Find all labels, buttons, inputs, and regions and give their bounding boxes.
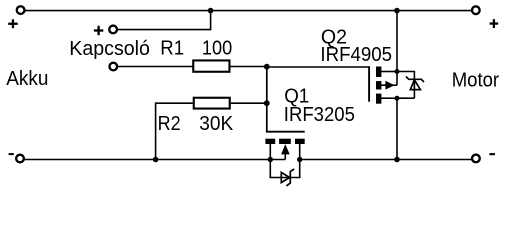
Q2 body diode bottom leg: [397, 97, 414, 99]
terminal battery minus: [16, 155, 24, 163]
transistor Q1: [265, 85, 355, 185]
svg-text:30K: 30K: [199, 113, 234, 135]
Q2 channel bar source: [376, 67, 381, 78]
label minus motor: [489, 153, 495, 155]
svg-text:R1: R1: [160, 38, 184, 60]
svg-text:Akku: Akku: [6, 68, 48, 90]
Q1 body diode left leg: [270, 160, 290, 178]
label plus switch: [94, 26, 103, 35]
Q1 source stub: [269, 144, 271, 160]
Q1 body diode right leg: [290, 160, 299, 178]
Q1 channel bar source: [265, 139, 275, 144]
junction node switch branch: [208, 8, 214, 14]
switch terminal bottom: [109, 63, 117, 71]
wire switch to R1: [118, 66, 193, 68]
junction node R2 ground: [153, 157, 159, 163]
Q1 channel bar drain: [295, 139, 305, 144]
wire gate node to Q2 gate: [267, 66, 370, 68]
svg-text:Motor: Motor: [452, 70, 500, 92]
Q2 body arrow: [385, 81, 394, 90]
Q1 body wire: [284, 154, 286, 160]
Q2 channel bar body: [376, 81, 381, 89]
resistor R1: [193, 60, 229, 71]
junction node Q2 drain: [395, 96, 400, 101]
label minus battery: [9, 153, 14, 155]
label plus battery: [8, 19, 18, 28]
label plus motor: [490, 19, 499, 28]
svg-text:Kapcsoló: Kapcsoló: [69, 38, 150, 60]
junction node bottom Q2: [394, 157, 400, 163]
Q2 diode triangle: [410, 80, 420, 90]
Q1 diode cathode: [286, 169, 294, 186]
svg-text:100: 100: [202, 38, 232, 60]
terminal motor minus: [472, 155, 480, 163]
terminal motor plus: [472, 6, 480, 14]
top wire: [25, 10, 472, 12]
svg-text:IRF4905: IRF4905: [320, 44, 392, 66]
Q1 drain stub: [299, 144, 301, 160]
Q2 channel bar drain: [376, 94, 381, 104]
Q1 body arrow: [281, 144, 290, 154]
Q2 body diode top leg: [397, 72, 414, 99]
Q2 drain stub: [381, 97, 397, 99]
Q1 diode triangle: [281, 172, 289, 182]
switch branch wire: [118, 11, 211, 30]
Q1 channel bar body: [279, 139, 291, 144]
junction node R2: [264, 100, 270, 106]
wire gate node down to Q1 gate: [266, 67, 268, 133]
junction node Q1 source: [268, 157, 273, 162]
Q2 main line lower: [396, 98, 398, 159]
bottom wire left: [24, 159, 285, 161]
resistor R2: [194, 98, 230, 109]
svg-text:R2: R2: [158, 113, 181, 135]
wire R2 to node: [231, 102, 267, 104]
node gate junction: [264, 64, 270, 70]
wire R2 to ground: [156, 103, 193, 159]
Q2 main line upper: [396, 11, 398, 86]
Q2 source stub: [381, 71, 397, 73]
Q1 gate plate: [266, 131, 305, 133]
Q2 gate plate: [368, 66, 370, 101]
wire R1 to gate node: [231, 66, 268, 68]
junction node Q2 source: [395, 69, 400, 74]
junction node Q1 drain: [297, 157, 302, 162]
junction node Q2 top: [394, 8, 400, 14]
Q2 diode cathode: [406, 77, 424, 83]
terminal battery plus: [17, 6, 25, 14]
switch terminal top: [109, 26, 117, 34]
svg-text:IRF3205: IRF3205: [284, 104, 355, 126]
bottom wire right: [300, 159, 472, 161]
transistor Q2: [320, 11, 424, 160]
Q2 body wire: [381, 84, 397, 86]
